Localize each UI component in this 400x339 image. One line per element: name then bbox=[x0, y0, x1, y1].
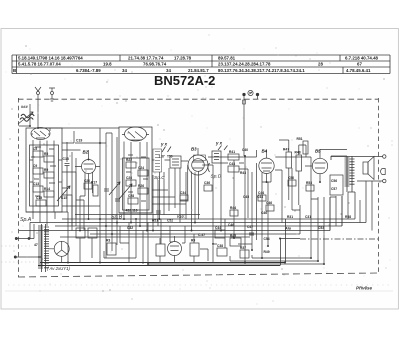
component C13 bbox=[33, 182, 43, 192]
capacitor C19 bbox=[75, 139, 100, 144]
wire Sp.C links bbox=[152, 160, 188, 219]
svg-text:R5: R5 bbox=[44, 152, 48, 156]
labels C54 R49 Alu C47 bbox=[198, 223, 292, 254]
title block row 1 text bbox=[18, 56, 379, 61]
component R22 bbox=[126, 158, 136, 168]
bus wire 5 bbox=[90, 205, 300, 234]
svg-text:C36: C36 bbox=[204, 181, 210, 185]
svg-text:C38: C38 bbox=[217, 244, 223, 248]
svg-text:R9: R9 bbox=[44, 168, 48, 172]
wire bundle mid verticals bbox=[213, 150, 268, 262]
svg-text:C54: C54 bbox=[264, 237, 270, 241]
tube B5 bbox=[305, 149, 347, 183]
dash-dot center line bbox=[300, 238, 378, 240]
svg-text:C44: C44 bbox=[215, 226, 221, 230]
svg-text:6.7384.-7.89: 6.7384.-7.89 bbox=[76, 68, 101, 73]
title block row 3 text bbox=[13, 68, 371, 73]
svg-text:BN572A-2: BN572A-2 bbox=[154, 73, 215, 88]
svg-text:C18: C18 bbox=[63, 157, 69, 161]
wire B4 plate bbox=[275, 140, 311, 205]
resistor left of B7 bbox=[156, 238, 165, 263]
label KW bbox=[177, 214, 185, 219]
wires osc assembly bbox=[119, 142, 152, 231]
svg-text:y x: y x bbox=[160, 142, 168, 147]
svg-text:C-47: C-47 bbox=[198, 233, 205, 237]
tube B2 pin wires bbox=[80, 172, 93, 231]
speaker bbox=[363, 157, 374, 180]
title block table frame bbox=[12, 55, 390, 74]
component C38 bbox=[217, 244, 227, 256]
antenna terminal dot 1 bbox=[243, 93, 246, 156]
svg-text:R49: R49 bbox=[264, 250, 270, 254]
IF transformer Sp.C bbox=[153, 149, 165, 181]
value 432.116 bbox=[126, 209, 138, 213]
oscillator coil assembly Sp.B box bbox=[119, 127, 152, 213]
fold line bbox=[5, 290, 393, 292]
switch contacts y x left bbox=[159, 142, 173, 159]
resistor R51 bbox=[297, 137, 309, 154]
svg-text:5.18.149.1/798 14.16 18.497/76: 5.18.149.1/798 14.16 18.497/764 bbox=[18, 56, 83, 61]
wire band under B4 bbox=[213, 163, 300, 244]
antenna coil assembly Sp.A box bbox=[26, 128, 62, 212]
component R14 bbox=[44, 187, 54, 197]
jack symbol bbox=[381, 169, 386, 175]
svg-text:28: 28 bbox=[318, 62, 323, 67]
svg-text:C46: C46 bbox=[266, 201, 272, 205]
svg-text:R31: R31 bbox=[287, 215, 293, 219]
svg-text:R9: R9 bbox=[191, 239, 195, 243]
component C15 bbox=[36, 196, 46, 206]
bottom bus double line bbox=[38, 219, 300, 266]
mains feed wire 2 bbox=[14, 256, 41, 258]
svg-text:###: ### bbox=[21, 104, 28, 109]
svg-text:23.137.24.24.28.284.17.78: 23.137.24.24.28.284.17.78 bbox=[218, 62, 271, 67]
svg-text:21.74.38 17.7x.74: 21.74.38 17.7x.74 bbox=[128, 56, 164, 61]
svg-text:C44: C44 bbox=[258, 191, 264, 195]
node Sp.B bbox=[111, 215, 123, 221]
component C5 bbox=[33, 147, 43, 157]
wire band lower mid bbox=[104, 219, 225, 264]
capacitor C56 C57 box bbox=[330, 175, 343, 195]
resistor R41 bbox=[228, 150, 239, 160]
svg-text:R44: R44 bbox=[230, 206, 236, 210]
antenna 1 bbox=[35, 87, 41, 128]
resistor block R61 bbox=[76, 228, 97, 263]
bus wire 3 bbox=[55, 196, 342, 226]
svg-text:C40: C40 bbox=[242, 148, 248, 152]
variable antenna coil bbox=[18, 104, 34, 126]
tube B4 pins bbox=[262, 173, 271, 183]
svg-text:B: B bbox=[13, 68, 16, 73]
tube B osc bbox=[122, 127, 149, 141]
wire band left of B2 bbox=[55, 188, 100, 230]
wires left assembly verticals bbox=[30, 140, 63, 212]
wire band right mid bbox=[306, 145, 372, 231]
svg-text:R48: R48 bbox=[295, 151, 301, 155]
mains feed wire 1 bbox=[15, 224, 34, 240]
resistor right of B7 bbox=[190, 234, 199, 263]
tube B1 bbox=[31, 128, 50, 140]
svg-text:y x: y x bbox=[215, 141, 223, 146]
assembly internal marks bbox=[31, 147, 148, 201]
svg-text:B2: B2 bbox=[83, 150, 89, 155]
resistor R17 bbox=[91, 181, 98, 197]
wire bundle right verticals bbox=[311, 157, 348, 264]
IF transformer Sp.D bbox=[208, 151, 222, 180]
wire bundle left-mid verticals bbox=[100, 128, 117, 262]
svg-text:B4: B4 bbox=[262, 149, 268, 154]
component R5 bbox=[44, 152, 54, 162]
svg-text:C52: C52 bbox=[167, 219, 173, 223]
svg-text:C32: C32 bbox=[127, 226, 133, 230]
label 47 bbox=[34, 243, 38, 247]
pickup symbol bbox=[248, 90, 253, 95]
capacitor C62 bbox=[106, 239, 116, 256]
wire left assembly bottom bbox=[26, 212, 68, 262]
trimmer arrow C24b bbox=[109, 182, 120, 195]
trimmer arrow K24 bbox=[119, 184, 132, 199]
labels R51 C52 C32 bbox=[127, 219, 173, 231]
tube B2 bbox=[75, 150, 100, 174]
wire couplers left bbox=[38, 128, 119, 226]
svg-text:C45: C45 bbox=[243, 195, 249, 199]
tube B3 shield box bbox=[194, 155, 206, 161]
svg-text:B5: B5 bbox=[315, 149, 321, 154]
component R37 bbox=[240, 246, 249, 258]
svg-text:Sp.D: Sp.D bbox=[211, 174, 222, 180]
tube B7 bbox=[168, 236, 182, 263]
capacitor C43 bbox=[228, 162, 239, 172]
antenna 2 / earth terminal bbox=[49, 88, 55, 101]
resistor R47 bbox=[283, 148, 292, 169]
chassis dashed boundary bbox=[18, 98, 379, 277]
rectifier tube B6 bbox=[48, 241, 69, 263]
svg-text:R26: R26 bbox=[138, 184, 144, 188]
component R26 bbox=[138, 184, 148, 194]
bus wire 4 bbox=[19, 197, 330, 231]
wire B3-B4 grid bbox=[208, 157, 257, 218]
svg-text:R3: R3 bbox=[106, 239, 110, 243]
svg-text:17.28.78: 17.28.78 bbox=[174, 56, 192, 61]
wires bottom mid verticals bbox=[129, 219, 185, 264]
svg-text:432.116: 432.116 bbox=[126, 209, 138, 213]
trimmer arrow K15 bbox=[57, 186, 70, 201]
wire risers mid band bbox=[152, 165, 213, 231]
component C26 bbox=[126, 176, 136, 186]
svg-text:C57: C57 bbox=[331, 187, 337, 191]
svg-text:C47: C47 bbox=[247, 225, 253, 229]
svg-text:C53: C53 bbox=[318, 226, 324, 230]
svg-text:Přívěse: Přívěse bbox=[356, 286, 373, 291]
svg-text:47: 47 bbox=[34, 243, 38, 247]
svg-text:C5: C5 bbox=[33, 147, 37, 151]
labels around B4 bbox=[240, 148, 267, 215]
component C24 bbox=[138, 166, 148, 176]
drawing number BN572A-2 bbox=[154, 73, 215, 88]
switch contacts y x mid bbox=[215, 141, 228, 151]
midband small components bbox=[204, 181, 212, 191]
svg-text:C31: C31 bbox=[305, 215, 311, 219]
svg-text:67: 67 bbox=[357, 62, 362, 67]
svg-text:80.137.76.34.34.38.217.74.217.: 80.137.76.34.34.38.217.74.217.8.34.74.24… bbox=[218, 68, 305, 73]
bus wire 2 bbox=[30, 181, 366, 238]
svg-text:34: 34 bbox=[122, 68, 127, 73]
faint crossing line 2 bbox=[1, 261, 34, 263]
svg-text:R45: R45 bbox=[230, 234, 236, 238]
note Privese bbox=[356, 286, 373, 291]
label R31 C31 bbox=[287, 215, 351, 230]
svg-text:C13: C13 bbox=[33, 182, 39, 186]
component R45 bbox=[230, 234, 241, 246]
component C28 bbox=[128, 194, 138, 204]
wire output top to terminal bbox=[331, 155, 386, 158]
wire verticals x72 x76 bbox=[72, 152, 76, 231]
component C44 bbox=[215, 226, 225, 238]
service dashed line bbox=[8, 284, 392, 286]
svg-text:6.7.218 40.74.48: 6.7.218 40.74.48 bbox=[345, 56, 379, 61]
svg-text:C24: C24 bbox=[138, 166, 144, 170]
svg-text:R41: R41 bbox=[229, 150, 235, 154]
svg-text:C34: C34 bbox=[180, 191, 186, 195]
coupling box bbox=[170, 156, 181, 168]
scan speckle noise bbox=[6, 35, 393, 305]
tube B3 pin wires bbox=[180, 165, 208, 231]
faint crossing line 1 bbox=[1, 245, 30, 247]
svg-text:K15: K15 bbox=[61, 196, 67, 200]
svg-text:C9: C9 bbox=[33, 164, 37, 168]
svg-text:19.8: 19.8 bbox=[103, 62, 112, 67]
svg-text:C19: C19 bbox=[76, 139, 82, 143]
svg-text:KW.: KW. bbox=[177, 214, 185, 219]
node Sp.A bbox=[20, 217, 32, 223]
resistor R48 bbox=[295, 151, 302, 172]
svg-text:C56: C56 bbox=[331, 179, 337, 183]
wire output bottom to terminal bbox=[357, 179, 386, 182]
svg-text:R51: R51 bbox=[297, 137, 303, 141]
svg-text:76.98.76.74: 76.98.76.74 bbox=[143, 62, 167, 67]
bus wire 1 bbox=[62, 192, 355, 219]
capacitor C18 bbox=[63, 142, 70, 212]
svg-text:C15: C15 bbox=[36, 196, 42, 200]
bus wire 6 bbox=[60, 215, 250, 238]
svg-text:B3: B3 bbox=[191, 147, 197, 152]
svg-text:Sp.B: Sp.B bbox=[111, 215, 123, 221]
component C9 bbox=[33, 164, 43, 174]
tube B4 bbox=[259, 149, 274, 174]
svg-text:Sp.A: Sp.A bbox=[20, 217, 32, 223]
svg-text:R47: R47 bbox=[283, 148, 289, 152]
svg-text:C50: C50 bbox=[288, 176, 294, 180]
label AV 2xUY1 bbox=[47, 266, 70, 271]
svg-text:89.57.81: 89.57.81 bbox=[218, 56, 236, 61]
antenna terminal dot 2 bbox=[256, 93, 259, 99]
output transformer bbox=[331, 156, 355, 192]
svg-text:C20: C20 bbox=[84, 179, 90, 183]
component R9 bbox=[44, 168, 54, 178]
capacitor bars misc bbox=[104, 189, 254, 235]
svg-text:4.78.45.6.41: 4.78.45.6.41 bbox=[346, 68, 371, 73]
tube B3 bbox=[188, 147, 208, 176]
wire nested bus closures bbox=[148, 255, 324, 264]
title block row 2 text bbox=[18, 62, 362, 67]
svg-text:C46: C46 bbox=[228, 223, 234, 227]
svg-text:1.37: 1.37 bbox=[159, 155, 165, 159]
svg-text:( Av 2xUY1): ( Av 2xUY1) bbox=[47, 266, 70, 271]
svg-text:5.41.5.78 16.77.07.04: 5.41.5.78 16.77.07.04 bbox=[18, 62, 61, 67]
power transformer bbox=[38, 224, 49, 272]
